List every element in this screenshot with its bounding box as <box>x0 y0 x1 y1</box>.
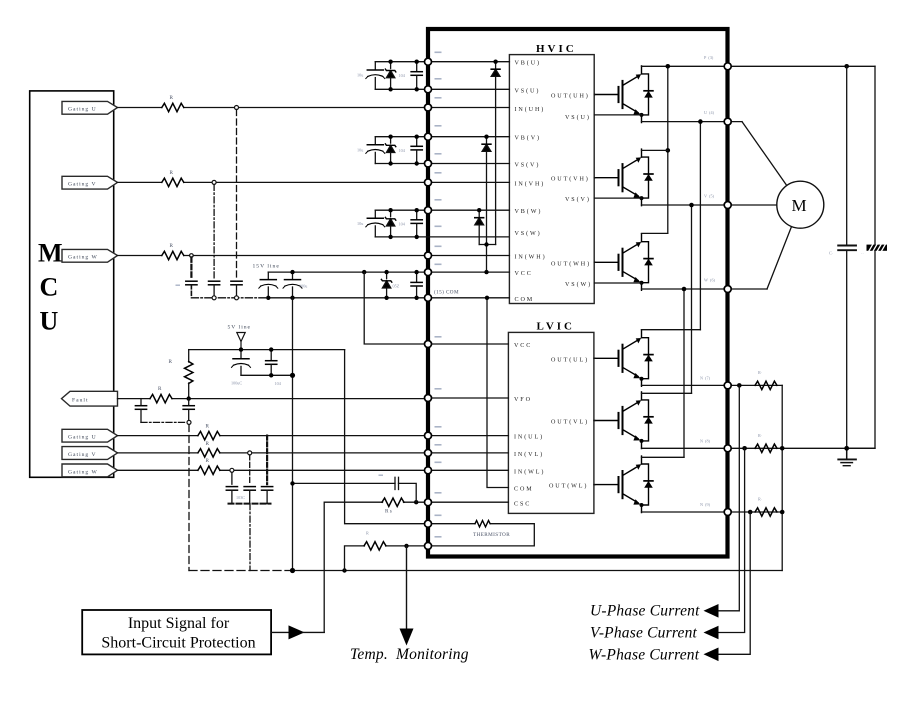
capacitor CSC filter <box>293 477 417 502</box>
diode bootstrap W column <box>475 210 484 244</box>
wire drop lower V dashed <box>249 455 251 484</box>
terminal IN(VH) <box>425 179 432 186</box>
svg-text:W-Phase Current: W-Phase Current <box>589 647 700 664</box>
transistor Q5 IGBT VL <box>595 392 653 449</box>
svg-text:R: R <box>206 441 210 447</box>
battery DC source hatched <box>867 245 888 251</box>
svg-text:Gating W: Gating W <box>68 469 98 475</box>
wire IN(UH) to HVIC <box>428 107 509 109</box>
terminal VFO <box>425 395 432 402</box>
junction dot shunt common mid <box>780 446 785 451</box>
svg-text:VS(W): VS(W) <box>515 230 542 237</box>
transistor Q1 IGBT UH <box>595 66 653 123</box>
terminal N(9) <box>724 509 731 516</box>
wire COM to LVIC COM vertical <box>487 298 508 488</box>
wire DC bus right vertical outer <box>847 66 875 448</box>
svg-text:VCC: VCC <box>514 343 532 349</box>
arrow U-phase current <box>704 604 719 618</box>
wire OUT(UH) <box>593 94 596 96</box>
node Gating-UH tag <box>62 101 118 114</box>
svg-text:104: 104 <box>275 381 282 386</box>
wire V to low side <box>691 205 693 393</box>
svg-text:LVIC: LVIC <box>537 321 576 333</box>
svg-text:R s: R s <box>385 509 392 515</box>
node U phase rail <box>642 121 743 123</box>
svg-text:10u: 10u <box>357 148 364 153</box>
capacitor electrolytic 15V rail <box>259 272 278 298</box>
terminal V(5) <box>724 202 731 209</box>
zener bootstrap V <box>385 137 395 164</box>
label tick cap left trio <box>176 285 181 286</box>
svg-text:N (8): N (8) <box>700 439 711 444</box>
svg-text:Gating V: Gating V <box>68 181 97 187</box>
svg-text:CSC: CSC <box>514 501 531 507</box>
wire thermistor bottom with divider <box>345 546 429 571</box>
motor M <box>777 181 824 228</box>
svg-text:OUT(UH): OUT(UH) <box>551 93 590 100</box>
junction dots bootstrap V <box>388 135 419 166</box>
node N(7) rail <box>642 384 783 386</box>
terminal VCC <box>425 269 432 276</box>
capacitor electrolytic 5V <box>232 350 251 376</box>
svg-text:R: R <box>170 243 174 249</box>
capacitor electrolytic bootstrap V <box>366 137 385 164</box>
svg-text:R: R <box>170 170 174 176</box>
svg-text:05Z: 05Z <box>393 284 400 289</box>
wire dashed drop from gating U <box>236 110 238 280</box>
wire U to low side <box>699 122 701 330</box>
junction dot COM to ground line <box>290 568 295 573</box>
wire Q6 collector rail <box>642 456 685 458</box>
wire VS(U) return <box>594 114 641 116</box>
terminal N(8) <box>724 445 731 452</box>
capacitor filter gating V <box>209 281 220 296</box>
capacitor gate filter W <box>226 487 237 504</box>
svg-text:IN(WL): IN(WL) <box>514 468 545 475</box>
capacitor DC link <box>838 246 856 251</box>
node Gating-UL tag <box>62 429 118 442</box>
junction dot fault node <box>187 396 191 400</box>
wire OUT(UL) <box>594 357 595 359</box>
motor connection U diagonal <box>742 122 787 186</box>
terminal VB(W) <box>425 207 432 214</box>
wire COM vertical down <box>292 298 294 571</box>
LVIC box <box>508 332 594 513</box>
svg-text:IN(VH): IN(VH) <box>515 180 546 187</box>
terminal IN(UL) <box>425 432 432 439</box>
svg-text:104: 104 <box>399 222 406 227</box>
capacitor gate filter V <box>244 487 255 504</box>
svg-text:Temp. Monitoring: Temp. Monitoring <box>350 646 469 663</box>
wire VFO to LVIC <box>428 397 508 399</box>
capacitor electrolytic bootstrap W <box>366 210 385 237</box>
junction dots 15V row <box>266 270 419 300</box>
svg-text:R: R <box>206 458 210 464</box>
junction dot sense V <box>742 446 747 451</box>
capacitor filter gating U <box>231 281 242 296</box>
svg-text:R: R <box>366 531 369 536</box>
junction circle gating U <box>235 106 239 110</box>
capacitor 15V rail right <box>411 272 422 298</box>
MCU box <box>30 91 114 477</box>
node N(9) rail <box>642 511 783 513</box>
svg-text:HVIC: HVIC <box>536 43 577 55</box>
wire 15V to LVIC VCC branch <box>364 272 428 344</box>
wire gating V lower <box>118 452 429 454</box>
svg-text:VB(V): VB(V) <box>515 135 541 142</box>
svg-text:V-Phase Current: V-Phase Current <box>590 625 698 642</box>
svg-text:R: R <box>170 95 174 101</box>
terminal thermistor A <box>425 520 432 527</box>
junction dots 5V <box>239 347 295 378</box>
svg-text:OUT(VL): OUT(VL) <box>551 419 589 426</box>
junction dot sense W <box>748 510 753 515</box>
svg-text:VS(U): VS(U) <box>515 87 541 94</box>
svg-text:(15) COM: (15) COM <box>434 289 459 296</box>
terminal CSC <box>425 499 432 506</box>
wire VB(V) to HVIC <box>428 136 509 138</box>
bootstrap group V rails <box>375 137 428 164</box>
transistor Q4 IGBT UL <box>595 330 653 387</box>
wire ground return line dashed part <box>189 570 293 572</box>
wire DC link cap branch <box>846 66 848 448</box>
arrow temp monitoring <box>400 629 414 646</box>
svg-text:Gating W: Gating W <box>68 254 98 260</box>
svg-text:VS(U): VS(U) <box>565 114 591 121</box>
node Gating-WL tag <box>62 464 118 477</box>
svg-text:VCC: VCC <box>515 271 533 277</box>
svg-text:IN(UL): IN(UL) <box>514 434 544 441</box>
wire OUT(WL) <box>594 484 595 486</box>
terminal VS(U) <box>425 86 432 93</box>
svg-text:U (4): U (4) <box>704 110 715 115</box>
svg-text:Input Signal for: Input Signal for <box>128 615 230 632</box>
wire dash-dot drop from gating V <box>213 184 215 279</box>
wire VCC lvic to LVIC <box>428 343 508 345</box>
junction circle fault ground <box>187 420 191 424</box>
pin number ticks left <box>435 52 442 538</box>
wire VS(V) return <box>594 197 641 199</box>
svg-text:15V line: 15V line <box>253 264 280 270</box>
wire gating U upper <box>118 107 429 109</box>
svg-text:OUT(WH): OUT(WH) <box>551 260 591 267</box>
wire OUT(VL) <box>594 420 595 422</box>
wire 5V cap return <box>241 374 293 376</box>
junction circle lower W <box>230 468 234 472</box>
svg-text:IN(VL): IN(VL) <box>514 451 544 458</box>
thermistor loop <box>428 524 534 546</box>
wire drop lower U bold dotted <box>266 436 268 485</box>
wire sense W drop <box>717 512 751 654</box>
svg-text:100uC: 100uC <box>231 381 242 386</box>
wire dashed drop to ground line <box>188 425 190 571</box>
svg-text:U: U <box>40 307 59 336</box>
node P rail <box>642 65 876 67</box>
svg-text:VS(V): VS(V) <box>515 162 541 169</box>
wire IN(WL) to LVIC <box>428 469 508 471</box>
node Gating-VL tag <box>62 447 118 460</box>
wire 5V to thermistor top <box>345 350 428 524</box>
svg-text:Short-Circuit Protection: Short-Circuit Protection <box>101 635 255 652</box>
arrow V-phase current <box>704 626 719 640</box>
wire IN(WH) to HVIC <box>428 255 509 257</box>
junction dot CSC <box>414 500 418 504</box>
resistor R gating V upper <box>162 178 184 186</box>
junction dot P to cap <box>844 64 849 69</box>
node Gating-VH tag <box>62 176 118 189</box>
arrow W-phase current <box>704 648 719 662</box>
svg-text:VB(U): VB(U) <box>515 60 541 67</box>
resistor R fault <box>150 394 172 402</box>
wire 15V rail <box>268 271 428 273</box>
wire input box to CSC <box>271 631 291 633</box>
wire VB(W) to HVIC <box>428 209 509 211</box>
wire dash-dot ground bus under filter caps <box>191 297 265 299</box>
wire W to low side <box>683 289 685 457</box>
svg-text:COM: COM <box>514 487 534 493</box>
svg-text:N (7): N (7) <box>700 376 711 381</box>
wire ground return line solid part <box>293 570 783 572</box>
wire OUT(VH) <box>593 177 596 179</box>
capacitor fault filter right <box>183 399 194 421</box>
diode bootstrap U column <box>491 62 500 245</box>
wire Q4 collector rail <box>642 329 701 331</box>
wire COM to HVIC <box>428 297 509 299</box>
capacitor filter gating W <box>186 281 197 298</box>
junction dot P bus top <box>666 64 671 69</box>
resistor shunt U <box>755 381 777 389</box>
resistor shunt W <box>755 508 777 516</box>
junction dot sense U <box>737 383 742 388</box>
bootstrap group W rails <box>375 210 509 237</box>
ground symbol <box>838 448 856 465</box>
junction dot V drop <box>689 203 694 208</box>
box input signal <box>82 610 271 654</box>
terminal W(6) <box>724 286 731 293</box>
terminal IN(WH) <box>425 252 432 259</box>
svg-text:Gating V: Gating V <box>68 452 97 458</box>
svg-text:100u: 100u <box>299 284 308 289</box>
junction dot U drop <box>698 119 703 124</box>
resistor thermistor divider <box>364 542 386 550</box>
capacitor ceramic bootstrap W <box>411 210 422 237</box>
junction dot thermistor return <box>342 568 346 572</box>
svg-text:N (9): N (9) <box>700 502 711 507</box>
wire dash-dot drop to ground line <box>249 504 251 571</box>
wire VS(U) to HVIC <box>428 88 509 90</box>
svg-text:··: ·· <box>861 251 864 256</box>
junction dots bootstrap W <box>388 208 419 239</box>
node Gating-WH tag <box>62 249 118 262</box>
svg-text:M: M <box>38 239 63 268</box>
wire drop lower W <box>231 472 233 484</box>
terminal U(4) <box>724 118 731 125</box>
capacitor ceramic 5V <box>266 350 277 376</box>
terminal VS(V) <box>425 160 432 167</box>
capacitor gate filter U <box>262 487 273 504</box>
wire 5V rail <box>189 349 345 351</box>
terminal N(7) <box>724 382 731 389</box>
capacitor ceramic bootstrap V <box>411 137 422 164</box>
svg-text:Gating U: Gating U <box>68 435 97 441</box>
resistor Rs <box>382 498 404 506</box>
wire sense U drop <box>717 385 740 610</box>
svg-text:OUT(VH): OUT(VH) <box>551 176 590 183</box>
svg-text:104: 104 <box>399 73 406 78</box>
HVIC box <box>509 55 594 304</box>
wire fault line <box>118 398 429 400</box>
terminal P(3) <box>724 63 731 70</box>
symbol 5V supply triangle <box>237 333 245 350</box>
svg-text:5V line: 5V line <box>228 325 252 331</box>
resistor R gating W lower <box>198 466 220 474</box>
resistor pull-up to 5V <box>185 350 193 399</box>
terminal IN(WL) <box>425 467 432 474</box>
junction dot W drop <box>682 287 687 292</box>
svg-text:THERMISTOR: THERMISTOR <box>473 532 510 538</box>
wire sense V drop <box>717 448 745 632</box>
wire Q2 collector rail <box>642 149 668 151</box>
wire gating V upper <box>118 181 429 183</box>
svg-text:103C: 103C <box>236 495 245 500</box>
terminal thermistor B <box>425 542 432 549</box>
junction circle lower V <box>248 451 252 455</box>
capacitor ceramic bootstrap U <box>411 62 422 90</box>
wire CSC line <box>324 502 428 632</box>
terminal VB(V) <box>425 133 432 140</box>
junction dots diode columns <box>477 60 498 275</box>
junction dot temp tap <box>404 544 408 548</box>
junction dot shunt common low <box>780 510 785 515</box>
resistor thermistor <box>475 521 490 527</box>
capacitor electrolytic bootstrap U <box>366 62 385 90</box>
wire IN(VL) to LVIC <box>428 452 508 454</box>
junction dot ground node <box>844 446 849 451</box>
svg-text:U-Phase Current: U-Phase Current <box>590 603 700 620</box>
module boundary thick rectangle <box>428 29 728 557</box>
wire gating W upper <box>118 255 429 257</box>
svg-text:M: M <box>792 196 807 215</box>
wire VS(V) to HVIC <box>428 163 509 165</box>
junction circle gating V <box>212 180 216 184</box>
svg-text:VS(W): VS(W) <box>565 281 592 288</box>
capacitor electrolytic on COM drop <box>283 272 302 298</box>
terminal COM <box>425 294 432 301</box>
svg-text:R·: R· <box>758 433 762 438</box>
zener bootstrap U <box>385 62 395 90</box>
wire dashed bus under gate filter caps <box>229 503 271 505</box>
svg-text:R: R <box>169 359 173 365</box>
junction circle bus U <box>235 296 239 300</box>
svg-text:C: C <box>40 273 59 302</box>
wire COM rail <box>268 297 428 299</box>
svg-text:IN(UH): IN(UH) <box>515 106 546 113</box>
wire diode columns tie <box>479 244 495 246</box>
wire dash-dot fault ground link <box>141 421 186 423</box>
svg-text:VB(W): VB(W) <box>515 208 543 215</box>
wire arrow to CSC riser <box>303 631 324 633</box>
junction circle bus V <box>212 296 216 300</box>
wire P bus vertical <box>667 66 669 233</box>
arrow input signal <box>289 625 305 639</box>
wire IN(VH) to HVIC <box>428 181 509 183</box>
svg-text:R·: R· <box>758 370 762 375</box>
motor connection W diagonal <box>767 226 792 289</box>
svg-text:R: R <box>206 424 210 430</box>
wire Q3 collector rail <box>642 232 668 234</box>
svg-text:VFO: VFO <box>514 397 532 403</box>
node V phase rail <box>642 204 777 206</box>
transistor Q3 IGBT WH <box>595 234 653 291</box>
wire gating W lower <box>118 469 429 471</box>
resistor shunt V <box>755 444 777 452</box>
junction dot P bus mid <box>666 148 671 153</box>
terminal IN(VL) <box>425 449 432 456</box>
svg-text:IN(WH): IN(WH) <box>515 254 547 261</box>
wire VB(U) to HVIC <box>428 61 509 63</box>
svg-text:W (6): W (6) <box>704 278 716 283</box>
svg-text:Fault: Fault <box>72 398 89 404</box>
capacitor fault filter left <box>135 399 146 423</box>
wire shunt common vertical <box>781 385 783 570</box>
junction dot COM vertical <box>485 296 489 300</box>
svg-text:P (3): P (3) <box>704 55 714 60</box>
zener bootstrap W <box>385 210 395 237</box>
junction gating W <box>190 254 194 258</box>
node Fault tag <box>62 391 118 406</box>
wire bold-dash drop from gating W <box>190 257 192 279</box>
wire gating U lower <box>118 435 429 437</box>
junction dot CSC cap on COM <box>290 481 294 485</box>
resistor R gating U upper <box>162 103 184 111</box>
svg-text:10u: 10u <box>357 73 364 78</box>
node N(8) rail <box>642 447 876 449</box>
bootstrap group U rails <box>375 62 428 90</box>
transistor Q6 IGBT WL <box>595 456 653 513</box>
wire temp monitoring drop <box>406 546 408 630</box>
resistor R gating V lower <box>198 449 220 457</box>
terminal VCC lvic <box>425 341 432 348</box>
terminal IN(UH) <box>425 104 432 111</box>
wire IN(UL) to LVIC <box>428 435 508 437</box>
wire VS(W) return <box>594 282 641 284</box>
wire VCC to HVIC <box>428 271 509 273</box>
resistor R gating W upper <box>162 251 184 259</box>
transistor Q2 IGBT VH <box>595 149 653 206</box>
zener diode 15V rail <box>381 272 391 298</box>
svg-text:C·: C· <box>829 251 833 256</box>
svg-text:OUT(UL): OUT(UL) <box>551 356 589 363</box>
label tick csc cap <box>379 475 384 476</box>
svg-text:104: 104 <box>399 148 406 153</box>
wire CSC to LVIC <box>428 501 508 503</box>
svg-text:R: R <box>158 386 162 392</box>
wire Q5 collector rail <box>642 392 692 394</box>
svg-text:OUT(WL): OUT(WL) <box>549 483 588 490</box>
svg-text:V (5): V (5) <box>704 194 715 199</box>
terminal VB(U) <box>425 58 432 65</box>
svg-text:COM: COM <box>515 297 535 303</box>
svg-text:Gating U: Gating U <box>68 106 97 112</box>
node W phase rail <box>642 288 768 290</box>
svg-text:R·: R· <box>758 497 762 502</box>
junction dots bootstrap U <box>388 60 419 92</box>
resistor R gating U lower <box>198 431 220 439</box>
diode bootstrap V column <box>482 137 491 272</box>
svg-text:VS(V): VS(V) <box>565 196 591 203</box>
svg-text:10u: 10u <box>357 221 364 226</box>
wire OUT(WH) <box>593 261 596 263</box>
